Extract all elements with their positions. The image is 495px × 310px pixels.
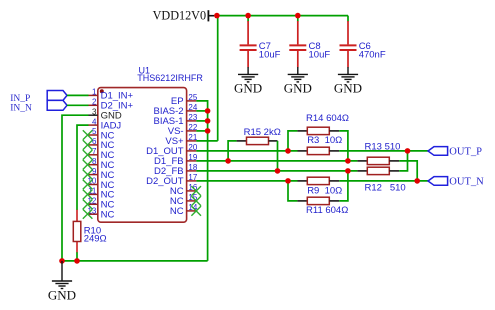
svg-text:9: 9 [92, 167, 97, 176]
power bar symbol VDD12V0 [207, 10, 209, 21]
svg-text:25: 25 [188, 93, 197, 102]
ground main [48, 261, 76, 303]
wire C7 drop [247, 16, 249, 22]
ground under C7 [234, 67, 262, 95]
op-amp U1 THS6212IRHFR body [98, 65, 204, 222]
capacitor C8 10uF [289, 21, 330, 67]
svg-text:VDD12V0: VDD12V0 [153, 8, 207, 22]
wire R10 bottom to rail [76, 252, 78, 261]
junction R15 left on D1_FB [225, 158, 231, 164]
svg-text:21: 21 [188, 133, 197, 142]
svg-text:R3 10Ω: R3 10Ω [307, 135, 342, 146]
svg-text:8: 8 [92, 157, 97, 166]
junction riser pin24 [205, 108, 211, 114]
wire pin4 IADJ down to R10 [77, 125, 89, 210]
wire C8 drop [297, 16, 299, 22]
junction OUT_P node [405, 148, 411, 154]
svg-text:OUT_P: OUT_P [449, 146, 482, 157]
wire pin19 D1_FB row [196, 160, 357, 162]
U1 left pin stubs [88, 95, 98, 214]
svg-text:249Ω: 249Ω [84, 234, 107, 245]
port IN_P [10, 91, 67, 104]
svg-text:R14 604Ω: R14 604Ω [306, 113, 349, 124]
wire EP/BIAS/VS- riser to ground rail [196, 101, 207, 261]
svg-text:23: 23 [188, 113, 197, 122]
ground under C6 [334, 67, 362, 95]
junction VDD at C8 [295, 13, 301, 19]
junction D2_FB at R11 right / R12 left [345, 168, 351, 174]
U1 right pin stubs [187, 101, 197, 211]
svg-text:10: 10 [87, 177, 96, 186]
wire pin20 D1_OUT row [196, 150, 297, 152]
wire IN_P to pin1 [67, 94, 89, 96]
svg-text:R11 604Ω: R11 604Ω [306, 205, 348, 216]
svg-text:IN_N: IN_N [10, 104, 32, 114]
wire pin24 BIAS-2 [196, 110, 207, 112]
U1 right pin labels [146, 96, 184, 217]
wire pin23 BIAS-1 [196, 120, 207, 122]
svg-text:NC: NC [101, 210, 115, 221]
wire VDD top rail [214, 15, 348, 17]
wire pin3 GND to left riser [62, 115, 89, 261]
svg-text:20: 20 [188, 143, 197, 152]
svg-text:7: 7 [92, 147, 97, 156]
svg-text:NC: NC [170, 206, 184, 217]
NC cross marks right pins 16,15,14 [191, 186, 201, 216]
svg-text:19: 19 [188, 153, 197, 162]
svg-text:OUT_N: OUT_N [449, 176, 484, 187]
resistor R13 510 [357, 141, 417, 181]
pin 1 marker dot [100, 89, 104, 93]
capacitor C6 470nF [340, 21, 386, 67]
resistor R15 2kΩ [228, 127, 281, 171]
svg-text:11: 11 [88, 187, 97, 196]
wire pin22 VS- [196, 130, 207, 132]
svg-text:2: 2 [92, 98, 97, 107]
NC cross marks left pins 5-13 [83, 130, 93, 219]
wire C6 drop [347, 16, 349, 22]
junction OUT_N node [414, 178, 420, 184]
svg-text:R12 510: R12 510 [365, 183, 406, 194]
junction VDD at C7 [245, 13, 251, 19]
resistor R9 10Ω [298, 177, 343, 197]
svg-text:22: 22 [188, 123, 197, 132]
svg-text:1: 1 [92, 88, 97, 97]
wire R9 right to OUT_N node [339, 180, 428, 182]
svg-text:GND: GND [334, 80, 362, 95]
capacitor C7 10uF [240, 21, 281, 67]
svg-text:GND: GND [284, 80, 312, 95]
svg-text:THS6212IRHFR: THS6212IRHFR [137, 73, 203, 83]
resistor R3 10Ω [298, 135, 343, 155]
junction R15 right on D2_FB [275, 168, 281, 174]
svg-text:4: 4 [92, 117, 97, 126]
junction rail at R10 [74, 258, 80, 264]
resistor R12 510 [357, 151, 407, 194]
svg-text:10uF: 10uF [309, 49, 331, 60]
svg-text:GND: GND [234, 80, 262, 95]
port OUT_P [428, 146, 482, 157]
svg-text:17: 17 [188, 173, 197, 182]
wire pin17 D2_OUT row [196, 180, 297, 182]
port IN_N [10, 100, 67, 113]
junction riser pin23 [205, 118, 211, 124]
U1 left pin numbers [87, 88, 96, 216]
svg-text:24: 24 [188, 103, 197, 112]
junction D1_FB at R14 right / R13 left [345, 158, 351, 164]
U1 right pin numbers [188, 93, 197, 212]
wire R3 right to OUT_P node [339, 150, 428, 152]
svg-text:470nF: 470nF [359, 49, 386, 60]
resistor R11 604Ω [288, 171, 348, 216]
resistor R14 604Ω [288, 113, 349, 161]
svg-text:10uF: 10uF [259, 49, 281, 60]
svg-text:R9 10Ω: R9 10Ω [307, 186, 342, 197]
svg-text:18: 18 [188, 163, 197, 172]
svg-text:IN_P: IN_P [10, 94, 30, 104]
U1 left pin labels [101, 91, 134, 221]
ground under C8 [284, 67, 312, 95]
wire VDD vertical to pin 21 [217, 16, 219, 141]
junction rail at GND stem [59, 258, 65, 264]
junction riser pin22 [205, 128, 211, 134]
svg-text:6: 6 [92, 137, 97, 146]
wire bottom ground rail [62, 260, 208, 262]
junction D2_OUT at R9/R11 left [285, 178, 291, 184]
port OUT_N [428, 176, 484, 187]
svg-text:13: 13 [87, 206, 96, 215]
wire pin18 D2_FB row [196, 170, 357, 172]
svg-text:12: 12 [87, 197, 96, 206]
resistor R10 249Ω [73, 210, 106, 253]
svg-text:R13 510: R13 510 [365, 141, 401, 152]
svg-text:R15 2kΩ: R15 2kΩ [244, 127, 281, 138]
wire IN_N to pin2 [67, 104, 89, 106]
svg-text:GND: GND [48, 288, 76, 303]
junction VDD at pin21 riser [214, 13, 220, 19]
wire pin21 VS+ [196, 140, 218, 142]
svg-text:5: 5 [92, 127, 97, 136]
junction D1_OUT at R14/R3 left [285, 148, 291, 154]
svg-text:3: 3 [92, 107, 97, 116]
